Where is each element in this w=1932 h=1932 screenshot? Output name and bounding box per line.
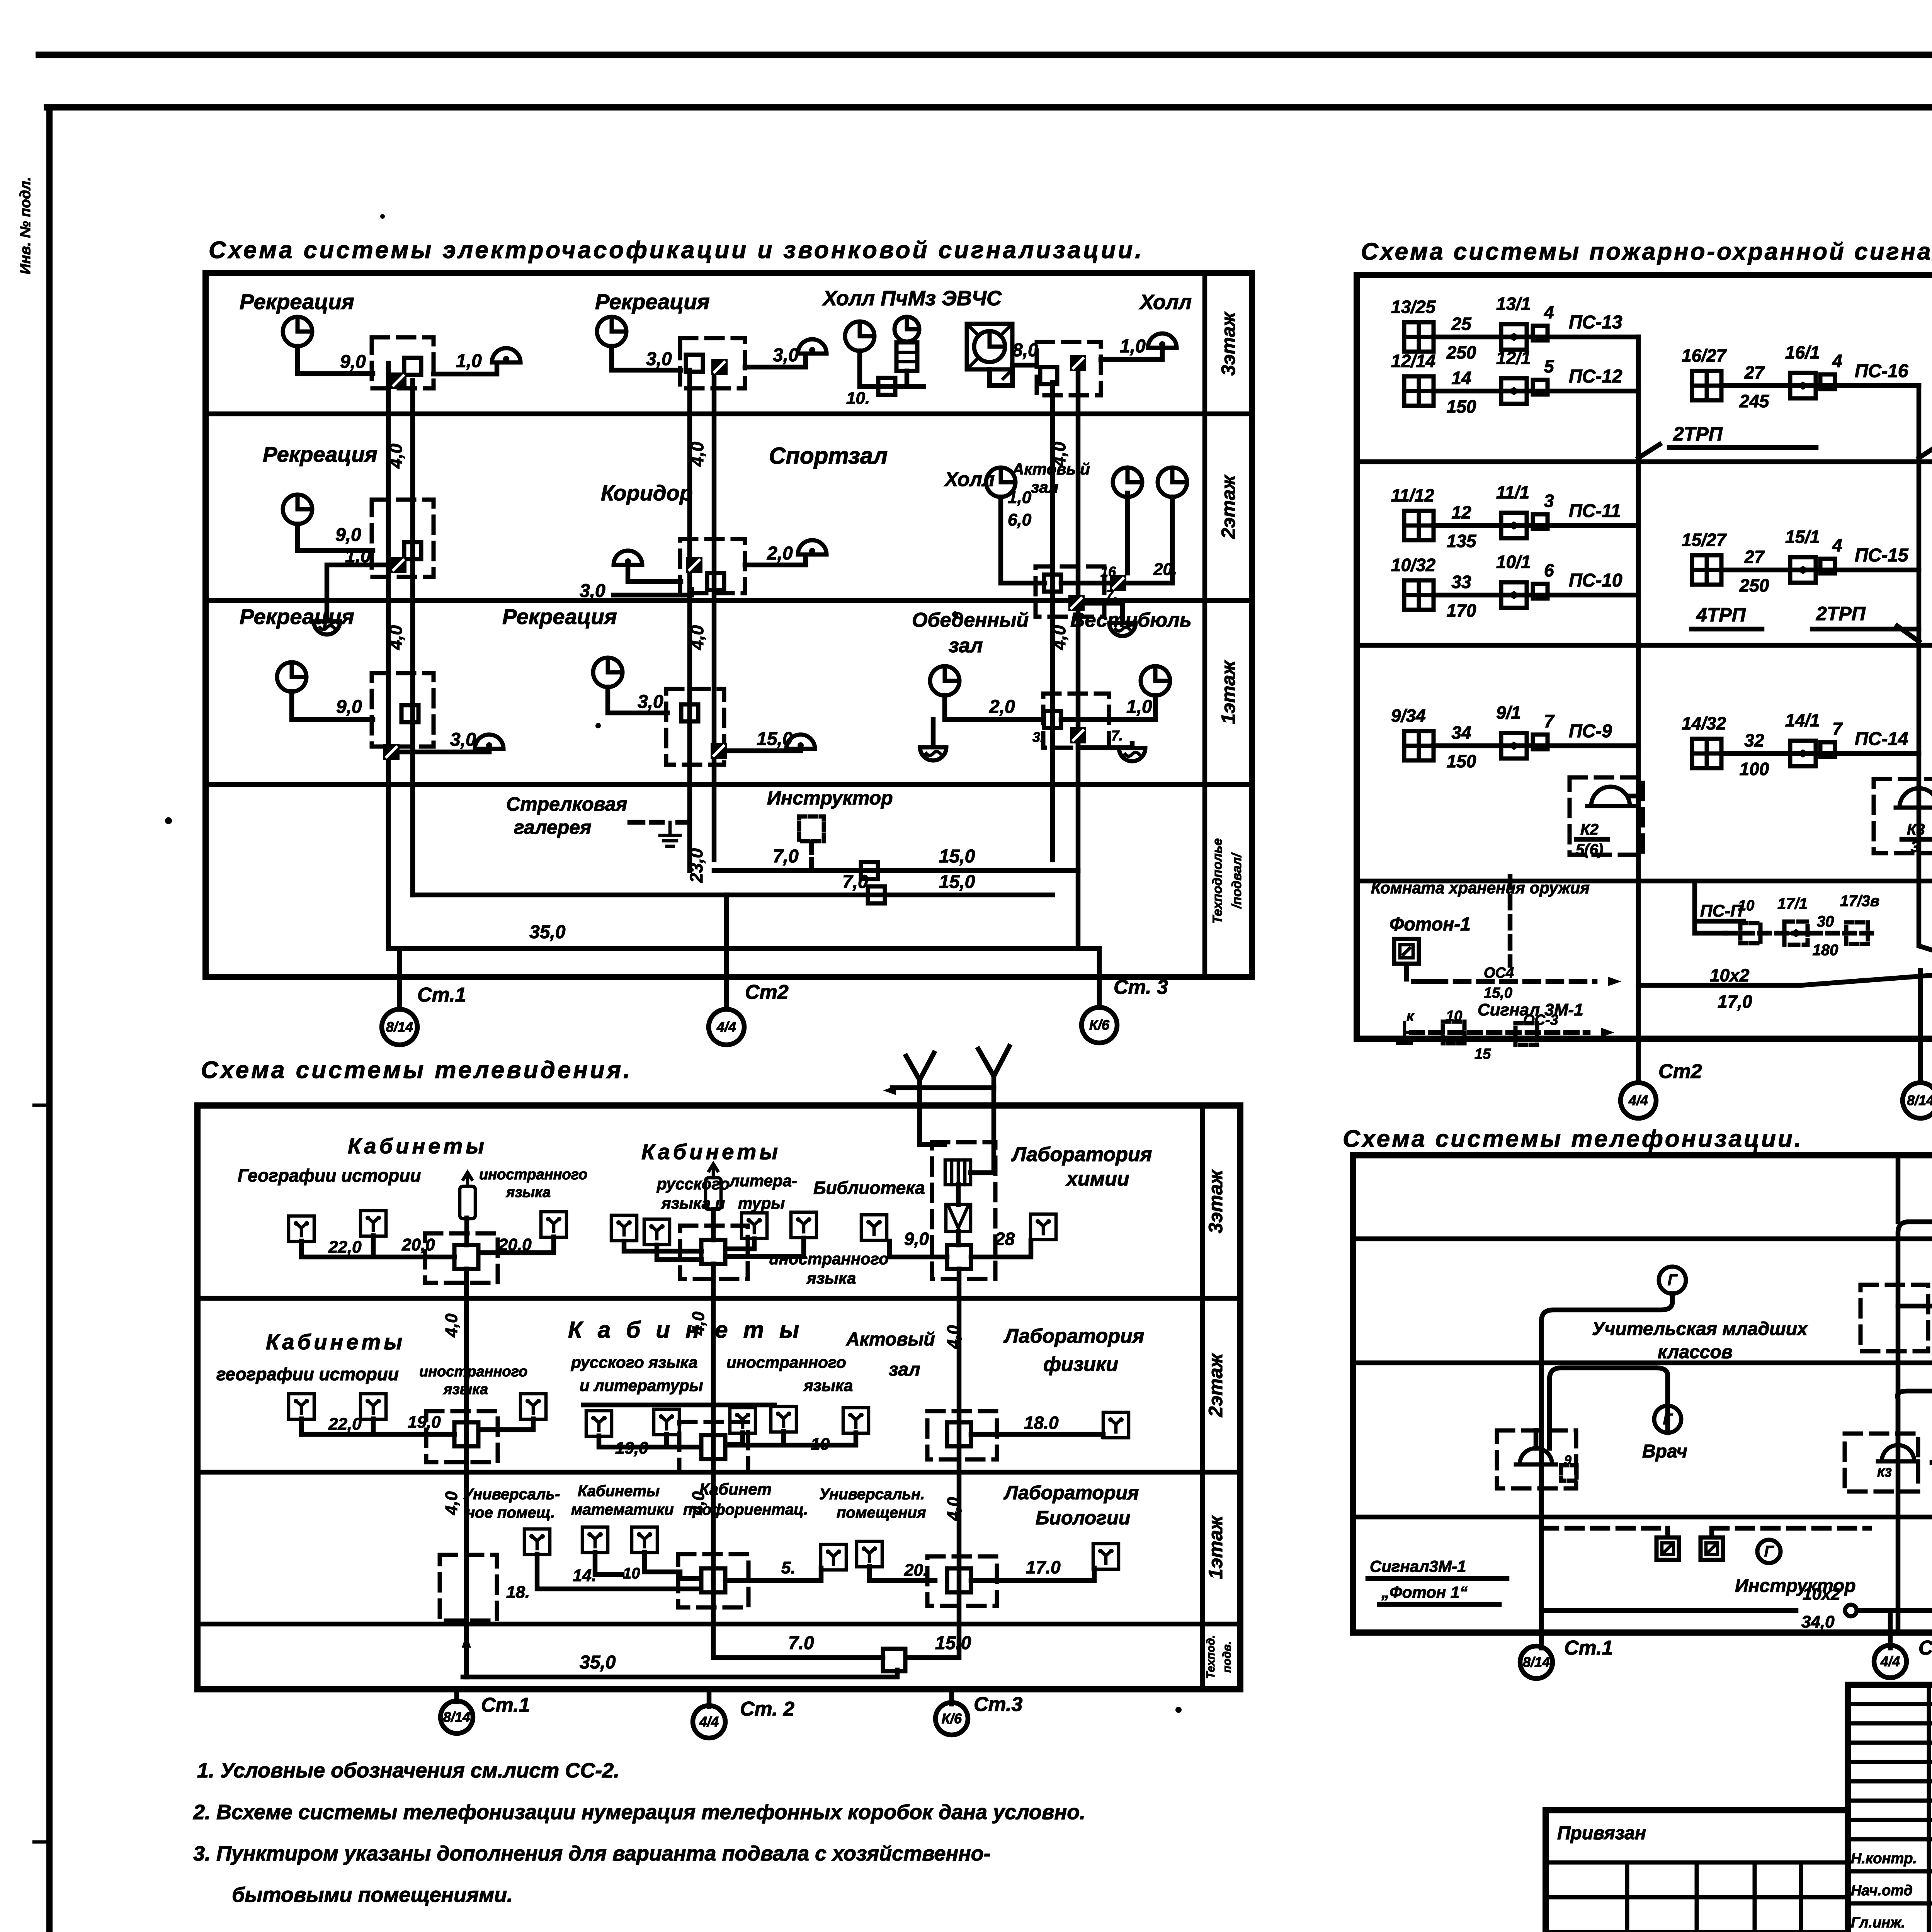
svg-text:Г: Г bbox=[1668, 1272, 1678, 1289]
underline 4TRP bbox=[1692, 627, 1762, 632]
concentrator K2 dashed box bbox=[1570, 777, 1643, 855]
svg-text:6,0: 6,0 bbox=[1008, 510, 1032, 529]
svg-text:Кабинеты: Кабинеты bbox=[578, 1483, 660, 1500]
svg-text:14: 14 bbox=[1451, 368, 1471, 388]
title block name rows bbox=[1848, 1871, 1932, 1932]
box 11/12 bbox=[1533, 514, 1548, 529]
junction box St1 f1 a bbox=[401, 705, 418, 722]
svg-text:4,0: 4,0 bbox=[442, 1491, 461, 1515]
svg-text:27: 27 bbox=[1744, 547, 1765, 567]
svg-text:12/1: 12/1 bbox=[1496, 348, 1531, 368]
svg-text:9/34: 9/34 bbox=[1391, 706, 1426, 726]
svg-text:Схема системы электрочасофикац: Схема системы электрочасофикации и звонк… bbox=[209, 237, 1144, 264]
clock f2 left bbox=[283, 495, 312, 524]
svg-text:ПС-16: ПС-16 bbox=[1855, 361, 1908, 381]
svg-text:2. Всхеме системы телефонизаци: 2. Всхеме системы телефонизации нумераци… bbox=[193, 1801, 1085, 1824]
svg-text:2ТРП: 2ТРП bbox=[1673, 423, 1723, 445]
tv outlet f2c1 a bbox=[289, 1394, 314, 1419]
svg-text:К3: К3 bbox=[1907, 821, 1925, 838]
concentrator K3 dashed box bbox=[1874, 779, 1932, 853]
tv outlet f1c2 d bbox=[821, 1544, 846, 1570]
svg-text:15,0: 15,0 bbox=[939, 872, 975, 892]
wire f1 left box to bell bbox=[400, 750, 489, 752]
scan speck 2 bbox=[952, 611, 958, 617]
tv outlet f3 chem left bbox=[861, 1215, 887, 1240]
svg-text:7.: 7. bbox=[1111, 728, 1123, 743]
svg-text:Спортзал: Спортзал bbox=[769, 443, 888, 469]
svg-text:Врач: Врач bbox=[1642, 1441, 1687, 1462]
svg-text:Инструктор: Инструктор bbox=[767, 787, 893, 809]
svg-text:ПС-12: ПС-12 bbox=[1569, 366, 1622, 387]
bell f2 mid right bbox=[798, 540, 827, 554]
dashed box OS3 a bbox=[1443, 1022, 1464, 1043]
svg-text:классов: классов bbox=[1658, 1342, 1733, 1362]
svg-text:физики: физики bbox=[1043, 1353, 1118, 1376]
svg-text:иностранного: иностранного bbox=[726, 1353, 846, 1371]
tv splitter dashed box f2c1 bbox=[426, 1411, 498, 1462]
tv outlet f3c2 b bbox=[644, 1219, 670, 1245]
svg-text:17.0: 17.0 bbox=[1026, 1557, 1061, 1577]
svg-text:4/4: 4/4 bbox=[1628, 1092, 1648, 1108]
svg-text:1,0: 1,0 bbox=[1008, 488, 1032, 507]
basement wire C 35m bbox=[388, 946, 1099, 951]
antenna arrow left bbox=[883, 1086, 896, 1095]
svg-text:Схема системы телефонизации.: Схема системы телефонизации. bbox=[1343, 1126, 1803, 1152]
svg-text:1,0: 1,0 bbox=[345, 546, 371, 566]
dashed wire gallery bbox=[630, 820, 662, 825]
bell f1 vestibule bbox=[1119, 748, 1145, 761]
junction dashed box St1 f2 bbox=[372, 500, 434, 577]
svg-text:7: 7 bbox=[1832, 719, 1843, 739]
svg-text:20.: 20. bbox=[904, 1561, 928, 1580]
station circle St2 p1 bbox=[709, 1009, 744, 1045]
box 16/27 bbox=[1820, 374, 1835, 389]
svg-text:33: 33 bbox=[1451, 572, 1471, 592]
svg-text:8/14: 8/14 bbox=[386, 1019, 413, 1035]
panel 1 frame bbox=[206, 273, 1252, 977]
concentrator K2 dome bbox=[1587, 787, 1634, 806]
svg-text:географии истории: географии истории bbox=[216, 1364, 399, 1384]
box 12/14 bbox=[1533, 380, 1548, 395]
svg-text:10/1: 10/1 bbox=[1496, 552, 1531, 572]
svg-text:17,0: 17,0 bbox=[1718, 992, 1752, 1012]
svg-text:Ст.1: Ст.1 bbox=[481, 1694, 530, 1716]
svg-text:250: 250 bbox=[1739, 575, 1769, 595]
junction box St1 f2 b bbox=[390, 557, 406, 573]
signal device basement b bbox=[1701, 1537, 1723, 1560]
junction dashed box St1 f1 bbox=[372, 673, 434, 747]
svg-text:9,0: 9,0 bbox=[904, 1229, 929, 1249]
svg-text:3,0: 3,0 bbox=[638, 692, 663, 712]
svg-text:Ст. 3: Ст. 3 bbox=[1114, 976, 1168, 998]
concentrator K3 underline bbox=[1902, 837, 1931, 842]
panel 1 floor-label column line bbox=[1202, 273, 1207, 977]
svg-text:5: 5 bbox=[1544, 356, 1554, 376]
svg-text:3. Пунктиром указаны дополнени: 3. Пунктиром указаны дополнения для вари… bbox=[193, 1842, 991, 1865]
svg-text:4,0: 4,0 bbox=[944, 1325, 963, 1349]
panel 4 floor divider 2-1 bbox=[1353, 1361, 1932, 1366]
wire conc St1 down bbox=[1536, 1430, 1541, 1517]
dashed box concentrator corridor bbox=[1845, 1434, 1918, 1492]
riser col2 tv bbox=[711, 1264, 716, 1580]
tv splitter f3 col2 bbox=[701, 1240, 725, 1264]
privyazan box frame bbox=[1546, 1810, 1848, 1932]
panel 1 floor divider 1-basement bbox=[206, 782, 1252, 787]
riser St2 line a bbox=[687, 370, 692, 871]
svg-text:2,0: 2,0 bbox=[767, 543, 793, 564]
security detector Photon-1 bbox=[1394, 939, 1419, 964]
svg-text:Рекреация: Рекреация bbox=[263, 442, 378, 466]
svg-text:Схема системы пожарно-охранной: Схема системы пожарно-охранной сигнализа… bbox=[1361, 238, 1932, 265]
svg-text:13/25: 13/25 bbox=[1391, 297, 1436, 317]
svg-text:23,0: 23,0 bbox=[686, 848, 706, 883]
svg-text:15/1: 15/1 bbox=[1785, 527, 1820, 547]
antenna mast right bbox=[970, 1088, 994, 1173]
svg-text:4,0: 4,0 bbox=[687, 442, 707, 467]
svg-text:6: 6 bbox=[1544, 560, 1554, 580]
station circle St3 p1 bbox=[1082, 1007, 1117, 1043]
antenna dashed box bbox=[932, 1142, 995, 1279]
tv outlet f3c2 a bbox=[611, 1215, 637, 1241]
svg-text:Лаборатория: Лаборатория bbox=[1011, 1143, 1152, 1166]
arrow OS3 end bbox=[1601, 1028, 1614, 1037]
svg-text:7.: 7. bbox=[1106, 587, 1117, 603]
svg-text:ное помещ.: ное помещ. bbox=[466, 1504, 555, 1521]
bell f3 hall right bbox=[1148, 333, 1177, 348]
page top rule bbox=[36, 52, 1932, 58]
svg-text:20.: 20. bbox=[1153, 560, 1177, 579]
scan speck 5 bbox=[1175, 1707, 1182, 1713]
call point 10/32 bbox=[1501, 582, 1527, 608]
svg-text:5(6): 5(6) bbox=[1576, 841, 1603, 858]
svg-text:4ТРП: 4ТРП bbox=[1696, 604, 1746, 626]
svg-text:Лаборатория: Лаборатория bbox=[1003, 1482, 1139, 1503]
svg-text:литера-: литера- bbox=[729, 1172, 797, 1190]
svg-text:7,0: 7,0 bbox=[773, 846, 799, 867]
tv outlet f2c1 b bbox=[361, 1394, 386, 1419]
svg-text:100: 100 bbox=[1740, 759, 1769, 779]
tv splitter f2 col1 bbox=[454, 1422, 478, 1446]
svg-text:14.: 14. bbox=[573, 1566, 596, 1585]
junction box St2 f2 a bbox=[686, 557, 702, 573]
station circle St2 fire bbox=[1621, 1083, 1656, 1118]
wire organizer bbox=[1898, 1291, 1932, 1306]
bell f2 right bbox=[1109, 623, 1136, 636]
wire f2c2 bus bbox=[599, 1432, 856, 1447]
underline 2TRP mid bbox=[1812, 627, 1919, 632]
tv outlet f1c3 b bbox=[1093, 1544, 1119, 1569]
svg-text:3этаж: 3этаж bbox=[1218, 311, 1239, 376]
call point 15/27 bbox=[1790, 557, 1816, 583]
panel 2 floor divider 2-1 bbox=[1357, 643, 1932, 648]
svg-text:Географии истории: Географии истории bbox=[238, 1165, 421, 1185]
box 15/27 bbox=[1820, 559, 1835, 573]
title block small grid verticals bbox=[1929, 1685, 1932, 1932]
wire EVChS to dashed box bbox=[990, 365, 1037, 386]
svg-text:Рекреация: Рекреация bbox=[240, 604, 354, 629]
wire clock f3 hall down bbox=[860, 351, 895, 386]
junction box St1 f1 b bbox=[383, 744, 400, 760]
svg-text:Комната хранения оружия: Комната хранения оружия bbox=[1371, 879, 1590, 897]
bus St2 fire bbox=[1636, 337, 1641, 985]
panel 3 floor divider 1-basement bbox=[197, 1622, 1240, 1627]
wire splitter f3c3 right bbox=[971, 1240, 1031, 1257]
junction box St3 f3 b bbox=[1040, 367, 1057, 384]
panel 1 floor divider 3-2 bbox=[206, 412, 1252, 417]
svg-text:химии: химии bbox=[1065, 1168, 1129, 1190]
dashed wire basement devices bbox=[1541, 1528, 1869, 1537]
page frame left border bbox=[46, 107, 53, 1932]
svg-text:4,0: 4,0 bbox=[687, 625, 707, 650]
underline signal basement b bbox=[1379, 1602, 1499, 1607]
svg-text:Актовый: Актовый bbox=[846, 1329, 935, 1350]
svg-text:Универсальн.: Универсальн. bbox=[819, 1486, 925, 1503]
underline 2TRP left bbox=[1669, 445, 1816, 450]
tv splitter dashed box f1c2 bbox=[678, 1554, 748, 1607]
dashed box concentrator vrach bbox=[1497, 1430, 1576, 1488]
svg-text:подв.: подв. bbox=[1221, 1641, 1233, 1673]
clock f3 left bbox=[283, 317, 312, 346]
clock f3 hall bbox=[845, 321, 874, 351]
svg-text:3.: 3. bbox=[1032, 729, 1044, 745]
svg-text:4: 4 bbox=[1832, 351, 1842, 371]
wire clock f1 mid to box bbox=[608, 687, 667, 713]
junction box St2 f2 b bbox=[707, 573, 724, 590]
tv splitter f2 col2 bbox=[701, 1435, 725, 1459]
tv splitter f3 col1 bbox=[454, 1245, 478, 1269]
svg-text:17/1: 17/1 bbox=[1777, 895, 1808, 912]
tv outlet f3 chem right bbox=[1031, 1214, 1056, 1240]
wire f1 mid box to bell bbox=[727, 750, 801, 751]
wire clock f3 left to box bbox=[298, 346, 373, 374]
box 9/34 bbox=[1533, 735, 1548, 749]
tv outlet f1c2 b bbox=[582, 1527, 608, 1553]
wire circuit &#1055;&#1057;-11 bbox=[1434, 523, 1638, 528]
smoke detector group 13/25 bbox=[1404, 322, 1434, 352]
svg-text:ПС-15: ПС-15 bbox=[1855, 545, 1909, 566]
svg-text:Ст.2: Ст.2 bbox=[1918, 1637, 1932, 1659]
svg-text:ОС4: ОС4 bbox=[1484, 965, 1514, 981]
svg-text:иностранного: иностранного bbox=[479, 1167, 587, 1183]
smoke detector group 11/12 bbox=[1404, 511, 1434, 540]
svg-text:3,0: 3,0 bbox=[773, 345, 799, 366]
svg-text:8/14: 8/14 bbox=[1907, 1092, 1932, 1108]
svg-text:языка: языка bbox=[806, 1269, 856, 1287]
svg-text:250: 250 bbox=[1446, 342, 1476, 362]
station stem St2 p1 bbox=[724, 895, 729, 1009]
svg-text:170: 170 bbox=[1447, 600, 1476, 621]
svg-text:10х2: 10х2 bbox=[1710, 965, 1750, 985]
svg-text:28: 28 bbox=[995, 1229, 1015, 1249]
wire f3 box to hall bell bbox=[1101, 350, 1162, 359]
svg-text:7.0: 7.0 bbox=[788, 1633, 814, 1653]
tv outlet f2c3 bbox=[1103, 1412, 1129, 1438]
wire f2 right to clocks bbox=[1127, 493, 1172, 583]
wire circuit &#1055;&#1057;-12 bbox=[1434, 389, 1638, 394]
tv splitter f3 col3 bbox=[947, 1245, 971, 1269]
svg-text:13/1: 13/1 bbox=[1496, 294, 1531, 314]
svg-text:ПС-10: ПС-10 bbox=[1569, 570, 1622, 591]
tv riser col1 arrow bbox=[462, 1634, 471, 1648]
svg-text:7: 7 bbox=[1544, 711, 1555, 731]
svg-text:Рекреация: Рекреация bbox=[502, 604, 617, 629]
tv basement wire 35 bbox=[463, 1670, 897, 1677]
wire clock f3 mid to box bbox=[612, 346, 681, 370]
ground symbol gallery bbox=[660, 822, 680, 846]
junction box St3 f1 a bbox=[1044, 711, 1061, 728]
svg-text:Ст.1: Ст.1 bbox=[1564, 1637, 1613, 1659]
concentrator telephone St2 bbox=[1878, 1445, 1918, 1461]
svg-text:18.: 18. bbox=[506, 1583, 530, 1602]
svg-text:языка: языка bbox=[803, 1376, 853, 1395]
station stem St2 fire bbox=[1636, 985, 1641, 1082]
svg-text:ОС-3: ОС-3 bbox=[1523, 1012, 1558, 1028]
junction box St1 f3 a bbox=[404, 358, 421, 375]
signal device basement a bbox=[1656, 1537, 1679, 1560]
svg-text:К/6: К/6 bbox=[942, 1711, 962, 1726]
svg-text:„Фотон 1“: „Фотон 1“ bbox=[1381, 1583, 1468, 1601]
bell f3 mid bbox=[798, 339, 827, 354]
tv outlet f3c1 c bbox=[541, 1212, 566, 1237]
svg-text:Нач.отд: Нач.отд bbox=[1851, 1883, 1913, 1899]
svg-text:10: 10 bbox=[1738, 898, 1754, 914]
tv amplifier col1 bbox=[460, 1172, 475, 1219]
station stem St3 tv bbox=[949, 1689, 954, 1704]
svg-text:15/27: 15/27 bbox=[1682, 530, 1727, 550]
svg-text:Холл: Холл bbox=[1139, 291, 1192, 314]
svg-text:4,0: 4,0 bbox=[1049, 625, 1069, 650]
wire circuit &#1055;&#1057;-9 bbox=[1434, 743, 1638, 748]
small box near St1 conc bbox=[1561, 1465, 1577, 1481]
concentrator K3 dome bbox=[1896, 788, 1932, 808]
svg-text:Инв. № подл.: Инв. № подл. bbox=[17, 177, 34, 274]
concentrator K2 underline bbox=[1577, 837, 1607, 842]
tv outlet f2c2 d bbox=[771, 1406, 796, 1432]
junction box St3 f1 b bbox=[1070, 727, 1086, 743]
wire vbox to splitter bbox=[956, 1231, 961, 1245]
tv outlet f3c1 a bbox=[289, 1216, 314, 1242]
svg-text:9,0: 9,0 bbox=[335, 525, 361, 545]
instructor dashed box p1 bbox=[799, 816, 824, 841]
svg-text:32: 32 bbox=[1744, 730, 1764, 750]
svg-text:2,0: 2,0 bbox=[989, 697, 1015, 717]
dashed call point PS-P bbox=[1784, 922, 1808, 945]
svg-text:Кабинеты: Кабинеты bbox=[348, 1134, 487, 1158]
overline f2c2 bbox=[583, 1403, 775, 1408]
svg-text:2этаж: 2этаж bbox=[1218, 474, 1239, 539]
svg-text:4,0: 4,0 bbox=[944, 1497, 963, 1521]
station stem St1 fire bbox=[1918, 971, 1923, 1082]
svg-text:5.: 5. bbox=[781, 1558, 796, 1577]
junction box basement A bbox=[861, 862, 878, 879]
svg-text:4,0: 4,0 bbox=[386, 444, 406, 469]
panel 2 frame bbox=[1357, 275, 1932, 1039]
svg-text:бытовыми помещениями.: бытовыми помещениями. bbox=[232, 1883, 513, 1906]
svg-text:9,0: 9,0 bbox=[340, 352, 366, 372]
wire f1c2 right bbox=[725, 1568, 821, 1580]
svg-text:16/1: 16/1 bbox=[1785, 342, 1820, 362]
svg-text:Кабинет: Кабинет bbox=[699, 1480, 772, 1498]
svg-text:и литературы: и литературы bbox=[580, 1376, 703, 1395]
svg-text:14/32: 14/32 bbox=[1682, 713, 1726, 733]
svg-text:Биологии: Биологии bbox=[1036, 1507, 1130, 1529]
station circle St2 tv bbox=[693, 1706, 725, 1738]
wire circuit &#1055;&#1057;-14 bbox=[1721, 751, 1919, 756]
tv splitter dashed box f2c2 bbox=[679, 1422, 748, 1472]
wire circuit &#1055;&#1057;-15 bbox=[1721, 568, 1919, 573]
junction dashed box St1 f3 bbox=[372, 337, 434, 388]
wire f1c2 bus bbox=[537, 1552, 701, 1589]
wire f2 mid box to bell bbox=[745, 556, 806, 565]
call point 13/25 bbox=[1501, 324, 1527, 350]
svg-text:профориентац.: профориентац. bbox=[683, 1501, 808, 1518]
svg-text:галерея: галерея bbox=[514, 816, 592, 838]
tv splitter dashed box f3c2 bbox=[680, 1226, 748, 1279]
svg-text:9: 9 bbox=[1564, 1453, 1571, 1468]
antenna crossbar bbox=[892, 1085, 994, 1090]
svg-text:2этаж: 2этаж bbox=[1205, 1353, 1226, 1418]
riser col3 tv bbox=[906, 1269, 959, 1658]
svg-text:34,0: 34,0 bbox=[1801, 1612, 1835, 1631]
wire circuit &#1055;&#1057;-10 bbox=[1434, 593, 1638, 598]
station stem St1 p1 bbox=[397, 949, 402, 1009]
dashed wire PS-P bbox=[1726, 931, 1874, 936]
svg-text:иностранного: иностранного bbox=[769, 1250, 889, 1268]
svg-text:20,0: 20,0 bbox=[498, 1235, 532, 1254]
call point 11/12 bbox=[1501, 513, 1527, 538]
svg-text:иностранного: иностранного bbox=[419, 1364, 527, 1380]
svg-text:9,0: 9,0 bbox=[336, 697, 362, 717]
tv splitter dashed box f2c3 bbox=[927, 1411, 997, 1459]
clock f2 hall bbox=[1113, 468, 1142, 497]
concentrator telephone St1 bbox=[1516, 1448, 1556, 1464]
clock f3 mid bbox=[597, 317, 626, 346]
junction dashed box St3 f1 bbox=[1043, 694, 1109, 748]
svg-text:4/4: 4/4 bbox=[699, 1714, 719, 1730]
svg-text:Сигнал3М-1: Сигнал3М-1 bbox=[1370, 1557, 1466, 1575]
panel 2 floor divider 3-2 bbox=[1357, 459, 1932, 464]
dashed box organizer bbox=[1861, 1285, 1928, 1351]
svg-text:18.0: 18.0 bbox=[1024, 1413, 1059, 1433]
smoke detector group 15/27 bbox=[1692, 555, 1721, 585]
wire f2 right lower bell bbox=[1085, 603, 1122, 618]
svg-text:8/14: 8/14 bbox=[1523, 1654, 1550, 1670]
clock f2 sport bbox=[986, 468, 1015, 497]
scan speck 6 bbox=[380, 214, 385, 219]
bell f1 dining bbox=[920, 747, 946, 760]
title block outer frame bbox=[1848, 1685, 1932, 1932]
svg-text:10: 10 bbox=[811, 1435, 830, 1454]
empty dashed box f1c1 bbox=[440, 1555, 497, 1621]
svg-text:17/3в: 17/3в bbox=[1840, 893, 1879, 910]
dashed vertical from floor above bbox=[1508, 876, 1513, 965]
wire f2c3 right bbox=[971, 1434, 1103, 1437]
smoke detector group 10/32 bbox=[1404, 580, 1434, 610]
svg-text:Ст2: Ст2 bbox=[745, 981, 789, 1003]
tv splitter f1 col2 bbox=[701, 1568, 725, 1592]
box 13/25 bbox=[1533, 326, 1548, 340]
svg-text:3,0: 3,0 bbox=[580, 581, 605, 601]
underline PS-P bbox=[1699, 919, 1743, 924]
clock f1 left bbox=[277, 662, 306, 692]
tv outlet f3c2 d bbox=[791, 1212, 816, 1238]
dashed wire gallery to riser bbox=[678, 820, 692, 825]
antenna V2 bbox=[978, 1046, 1009, 1088]
junction box f3 hall bbox=[878, 378, 895, 395]
riser col1 tv bbox=[464, 1269, 469, 1677]
svg-text:к: к bbox=[1406, 1008, 1415, 1024]
wire clock f1 left to box bbox=[292, 692, 373, 719]
